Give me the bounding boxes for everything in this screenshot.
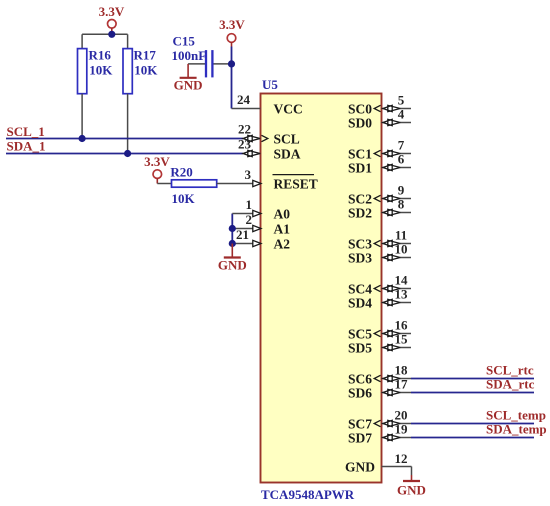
svg-text:SCL: SCL: [274, 131, 300, 146]
svg-text:SD1: SD1: [348, 160, 372, 175]
pin 3 input arrow: [253, 180, 261, 186]
svg-text:R17: R17: [134, 47, 157, 62]
junction R16/SCL_1: [79, 135, 86, 142]
wire R16/R17 tops: [82, 33, 128, 35]
svg-text:VCC: VCC: [274, 101, 303, 116]
svg-text:3.3V: 3.3V: [219, 17, 245, 32]
wire net SCL_temp: [411, 423, 534, 425]
pin 15 IO glyph: [383, 344, 392, 350]
svg-text:C15: C15: [173, 33, 196, 48]
svg-text:SD6: SD6: [348, 385, 372, 400]
pin 7 clock arrow: [374, 150, 380, 156]
wire net SDA_1: [6, 153, 243, 155]
pin 22 clock arrow: [262, 135, 268, 141]
svg-text:GND: GND: [174, 78, 203, 93]
power port 3.3V (pull-ups): [99, 4, 125, 34]
power port 3.3V (VCC): [219, 17, 245, 47]
wire A0-A2 link vertical: [231, 214, 233, 244]
svg-text:6: 6: [398, 152, 405, 167]
junction at 3.3V rail: [108, 31, 115, 38]
capacitor C15: [188, 50, 231, 77]
pin 9 IO glyph: [383, 195, 392, 201]
svg-text:10K: 10K: [134, 62, 158, 77]
pin 14 clock arrow: [374, 285, 380, 291]
pin 11 stub: [382, 243, 385, 245]
svg-text:SC2: SC2: [348, 191, 372, 206]
pin 21 input arrow: [253, 240, 261, 246]
pin 21 stub: [232, 243, 253, 245]
svg-text:GND: GND: [397, 483, 426, 498]
svg-text:SD2: SD2: [348, 205, 372, 220]
pin 20 IO glyph: [383, 420, 392, 426]
pin 16 clock arrow: [374, 330, 380, 336]
svg-text:1: 1: [246, 197, 253, 212]
svg-text:22: 22: [238, 122, 251, 137]
svg-text:13: 13: [395, 287, 409, 302]
wire net SDA_rtc: [411, 392, 534, 394]
pin 11 IO glyph: [383, 240, 392, 246]
svg-text:A2: A2: [274, 236, 291, 251]
svg-text:GND: GND: [218, 257, 247, 272]
junction A2: [229, 240, 236, 247]
resistor R16: [78, 34, 87, 138]
pin 2 stub: [232, 228, 253, 230]
pin 11 clock arrow: [374, 240, 380, 246]
svg-text:A1: A1: [274, 221, 291, 236]
svg-text:10K: 10K: [172, 191, 196, 206]
pin 17 stub: [382, 392, 385, 394]
svg-text:20: 20: [395, 408, 408, 423]
pin 13 stub: [382, 302, 385, 304]
pin 4 IO glyph: [383, 119, 392, 125]
junction A1: [229, 225, 236, 232]
pin 18 IO glyph: [383, 375, 392, 381]
svg-text:SD0: SD0: [348, 115, 372, 130]
svg-text:SC6: SC6: [348, 371, 372, 386]
pin 7 stub: [382, 153, 385, 155]
pin 13 IO glyph: [383, 299, 392, 305]
wire net SCL_rtc: [411, 378, 534, 380]
svg-text:SC3: SC3: [348, 236, 372, 251]
pin 1 stub: [232, 213, 253, 215]
wire net SDA_temp: [411, 437, 534, 439]
svg-text:4: 4: [398, 107, 405, 122]
svg-text:SCL_temp: SCL_temp: [486, 408, 546, 423]
wire GND down: [411, 467, 413, 476]
pin 7 IO glyph: [383, 150, 392, 156]
svg-text:3.3V: 3.3V: [144, 154, 170, 169]
pin 14 stub: [382, 288, 385, 290]
svg-text:8: 8: [398, 197, 405, 212]
pin 15 stub: [382, 347, 385, 349]
pin 12 stub: [382, 466, 412, 468]
svg-text:SC1: SC1: [348, 146, 372, 161]
svg-text:18: 18: [395, 363, 409, 378]
pin 4 stub: [382, 122, 385, 124]
pin 23 IO glyph: [243, 150, 252, 156]
pin 8 stub: [382, 212, 385, 214]
svg-text:SDA_temp: SDA_temp: [486, 422, 547, 437]
svg-text:3.3V: 3.3V: [99, 4, 125, 19]
svg-text:16: 16: [395, 318, 409, 333]
pin 14 IO glyph: [383, 285, 392, 291]
pin 18 clock arrow: [374, 375, 380, 381]
svg-text:SDA: SDA: [274, 146, 301, 161]
svg-text:24: 24: [237, 92, 251, 107]
RESET overline: [273, 174, 315, 176]
pin 6 IO glyph: [383, 164, 392, 170]
svg-text:SCL_1: SCL_1: [7, 124, 45, 139]
svg-text:2: 2: [246, 212, 253, 227]
IC U5 TCA9548APWR body: [261, 94, 382, 483]
junction at C15: [228, 60, 235, 67]
pin 10 stub: [382, 257, 385, 259]
pin 10 IO glyph: [383, 254, 392, 260]
pin 20 clock arrow: [374, 420, 380, 426]
power port 3.3V (R20): [144, 154, 170, 184]
pin 16 IO glyph: [383, 330, 392, 336]
pin 5 clock arrow: [374, 105, 380, 111]
svg-text:9: 9: [398, 183, 405, 198]
svg-text:RESET: RESET: [274, 176, 318, 191]
pin 16 stub: [382, 333, 385, 335]
pin 18 stub: [382, 378, 385, 380]
svg-text:SDA_1: SDA_1: [7, 139, 46, 154]
ground (A0-A2): [218, 244, 247, 273]
pin 5 IO glyph: [383, 105, 392, 111]
wire net SCL_1: [6, 138, 243, 140]
pin 24 stub: [232, 108, 261, 110]
svg-text:SD3: SD3: [348, 250, 372, 265]
pin 19 stub: [382, 437, 385, 439]
svg-text:U5: U5: [262, 77, 278, 92]
wire VCC vertical: [231, 47, 233, 109]
svg-text:3: 3: [245, 167, 252, 182]
svg-text:100nF: 100nF: [172, 48, 207, 63]
svg-text:SC5: SC5: [348, 326, 372, 341]
svg-text:12: 12: [395, 451, 408, 466]
svg-text:11: 11: [395, 228, 407, 243]
junction R17/SDA_1: [124, 150, 131, 157]
pin 2 input arrow: [253, 225, 261, 231]
pin 20 stub: [382, 423, 385, 425]
svg-text:GND: GND: [345, 459, 375, 474]
pin 19 IO glyph: [383, 434, 392, 440]
resistor R20: [157, 180, 253, 187]
pin 8 IO glyph: [383, 209, 392, 215]
pin 5 stub: [382, 108, 385, 110]
ground (pin 12): [397, 475, 426, 498]
svg-text:10: 10: [395, 242, 408, 257]
svg-text:5: 5: [398, 93, 405, 108]
svg-text:A0: A0: [274, 206, 291, 221]
svg-text:SD4: SD4: [348, 295, 372, 310]
svg-text:SC4: SC4: [348, 281, 372, 296]
svg-text:R16: R16: [89, 47, 112, 62]
pin 1 input arrow: [253, 210, 261, 216]
svg-text:23: 23: [238, 137, 252, 152]
pin 22 IO glyph: [243, 135, 252, 141]
pin 17 IO glyph: [383, 389, 392, 395]
svg-text:15: 15: [395, 332, 409, 347]
svg-text:TCA9548APWR: TCA9548APWR: [261, 487, 355, 502]
svg-text:SD7: SD7: [348, 430, 372, 445]
svg-text:21: 21: [236, 227, 249, 242]
ground (C15): [174, 64, 203, 93]
svg-text:19: 19: [395, 422, 409, 437]
pin 9 clock arrow: [374, 195, 380, 201]
svg-text:SC7: SC7: [348, 416, 372, 431]
pin 9 stub: [382, 198, 385, 200]
svg-text:SCL_rtc: SCL_rtc: [486, 363, 534, 378]
resistor R17: [123, 34, 132, 153]
svg-text:R20: R20: [170, 165, 192, 180]
pin 6 stub: [382, 167, 385, 169]
svg-text:14: 14: [395, 273, 409, 288]
svg-text:10K: 10K: [89, 62, 113, 77]
svg-text:7: 7: [398, 138, 405, 153]
svg-text:SDA_rtc: SDA_rtc: [486, 377, 535, 392]
svg-text:17: 17: [395, 377, 409, 392]
svg-text:SC0: SC0: [348, 101, 372, 116]
svg-text:SD5: SD5: [348, 340, 372, 355]
